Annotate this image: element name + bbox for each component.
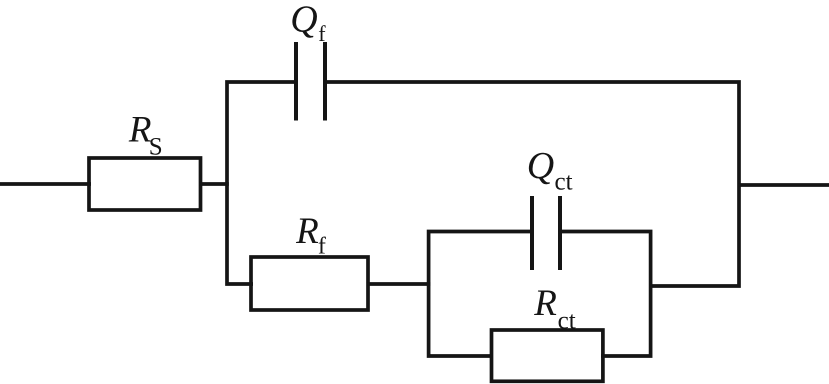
wire Rf to node C [367, 282, 431, 286]
node C bus: top-left wire, left vertical, bottom-left wire [429, 232, 533, 357]
svg-text:ct: ct [558, 307, 576, 334]
svg-text:S: S [149, 133, 163, 160]
wire output right [738, 183, 829, 187]
capacitor Qct plate left [530, 196, 534, 270]
label Qf [290, 0, 326, 46]
resistor Rct body [492, 330, 603, 381]
label RS [128, 110, 163, 161]
node D bus: top-right wire, right vertical, bottom-right wire [559, 232, 651, 357]
label Rf [295, 211, 326, 260]
svg-text:Q: Q [290, 0, 317, 41]
svg-text:ct: ct [555, 169, 573, 196]
svg-text:f: f [318, 21, 326, 46]
resistor RS body [89, 158, 201, 210]
capacitor Qf plate right [323, 42, 327, 121]
label Rct [533, 283, 575, 334]
capacitor Qf plate left [294, 42, 298, 121]
wire RS to node A [199, 182, 229, 186]
svg-text:f: f [318, 234, 326, 260]
svg-text:R: R [533, 283, 557, 324]
svg-text:R: R [295, 211, 319, 252]
label Qct [527, 145, 573, 196]
capacitor Qct plate right [558, 196, 562, 270]
wire input left [0, 182, 91, 186]
resistor Rf body [251, 257, 368, 310]
svg-text:Q: Q [527, 145, 554, 187]
node A bus with top-branch wire [227, 82, 297, 284]
wire top branch right, node B vertical, wire to node D [324, 82, 739, 286]
